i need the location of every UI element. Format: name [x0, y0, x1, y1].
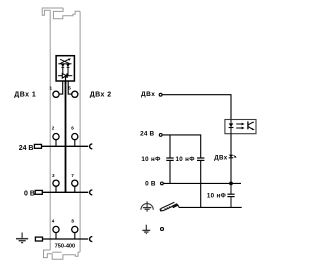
LED light arrow [60, 59, 69, 63]
capacitor C1 lead [169, 135, 171, 158]
svg-text:750-400: 750-400 [55, 244, 76, 250]
LED light arrow 2 [60, 59, 69, 63]
legend earth symbol [142, 225, 150, 234]
svg-text:10 нФ: 10 нФ [207, 193, 227, 200]
svg-text:2: 2 [52, 126, 55, 131]
row 3 fork clamp [90, 190, 93, 195]
row 4 pad [35, 237, 42, 241]
optocoupler light arrows [236, 123, 242, 125]
svg-text:ДВх: ДВх [141, 91, 155, 98]
DIN rail icon [160, 202, 179, 211]
capacitor C3 [227, 193, 234, 195]
internal bus line [65, 81, 67, 192]
capacitor C3 lower lead [230, 197, 232, 207]
row 3 wire 0V [42, 191, 89, 193]
optocoupler phototransistor [247, 121, 249, 129]
svg-text:8: 8 [71, 218, 74, 223]
svg-text:1: 1 [50, 85, 53, 90]
capacitor C1 [166, 157, 173, 159]
module left side [49, 10, 51, 250]
wire 0V [164, 182, 242, 184]
wire DVh to optocoupler [162, 95, 231, 120]
earth symbol left [16, 233, 28, 243]
module bottom ledge [52, 251, 61, 253]
terminal 7 [72, 180, 78, 186]
row 4 wire earth [42, 238, 89, 240]
pin stem right from box [68, 81, 71, 94]
module bottom DIN-rail outline [44, 250, 81, 259]
capacitor C1 lower lead [169, 161, 171, 184]
capacitor C2 [197, 157, 204, 159]
LED D2 (status channel 2) [67, 64, 70, 66]
row 2 wire 24V [42, 145, 89, 147]
LED box U1 [56, 56, 74, 81]
wire 24V [162, 135, 200, 158]
row 2 fork clamp [90, 144, 93, 149]
terminal 2 stem [55, 140, 57, 147]
svg-text:10 нФ: 10 нФ [141, 156, 161, 163]
row 2 pad [34, 144, 41, 148]
diode D3 [62, 74, 66, 79]
svg-text:0 В: 0 В [24, 190, 35, 197]
svg-text:ДВх 2: ДВх 2 [90, 92, 112, 99]
node 24V terminal [159, 134, 162, 137]
svg-text:4: 4 [52, 218, 55, 223]
internal bus stub [65, 76, 67, 81]
status LED DVh [229, 155, 234, 158]
LED anode line [58, 63, 71, 65]
terminal 6 [72, 134, 78, 140]
terminal 6 stem [74, 140, 76, 147]
node DVh terminal [159, 93, 162, 96]
clean earth symbol [141, 201, 153, 211]
svg-text:7: 7 [71, 173, 74, 178]
optocoupler LED wire [230, 120, 232, 134]
terminal 8 [72, 226, 78, 232]
LED D1 (status channel 1) [61, 64, 64, 66]
terminal 1 [53, 91, 59, 97]
op-amp U2 optocoupler box [225, 120, 256, 134]
svg-text:5: 5 [68, 85, 71, 90]
terminal 8 stem [74, 233, 76, 239]
terminal 4 [53, 226, 59, 232]
wire optocoupler down to 0V node [230, 134, 232, 184]
capacitor C2 lower lead [200, 161, 202, 208]
terminal 4 stem [55, 233, 57, 239]
terminal 3 stem [55, 186, 57, 192]
node 0V terminal [161, 182, 164, 185]
terminal 2 [53, 134, 59, 140]
junction node [229, 182, 233, 186]
svg-text:ДВх: ДВх [214, 154, 227, 161]
optocoupler LED [229, 123, 234, 127]
shield line [179, 206, 242, 208]
svg-text:6: 6 [71, 126, 74, 131]
terminal 7 stem [74, 186, 76, 192]
diode D3 line [58, 75, 72, 77]
pin stem left from box [59, 81, 63, 94]
module right side [79, 11, 81, 252]
svg-text:0 В: 0 В [145, 181, 156, 188]
svg-text:ДВх 1: ДВх 1 [14, 91, 36, 98]
terminal 5 [72, 91, 78, 97]
terminal 3 [53, 180, 59, 186]
module top outline [42, 8, 80, 19]
svg-text:3: 3 [52, 173, 55, 178]
capacitor C3 upper lead [230, 183, 232, 194]
svg-text:10 нФ: 10 нФ [176, 156, 196, 163]
svg-text:24 В: 24 В [140, 131, 154, 138]
row 4 fork clamp [90, 237, 93, 242]
legend terminal circle [161, 228, 164, 231]
svg-text:24 В: 24 В [19, 145, 34, 152]
row 3 pad [35, 190, 42, 194]
